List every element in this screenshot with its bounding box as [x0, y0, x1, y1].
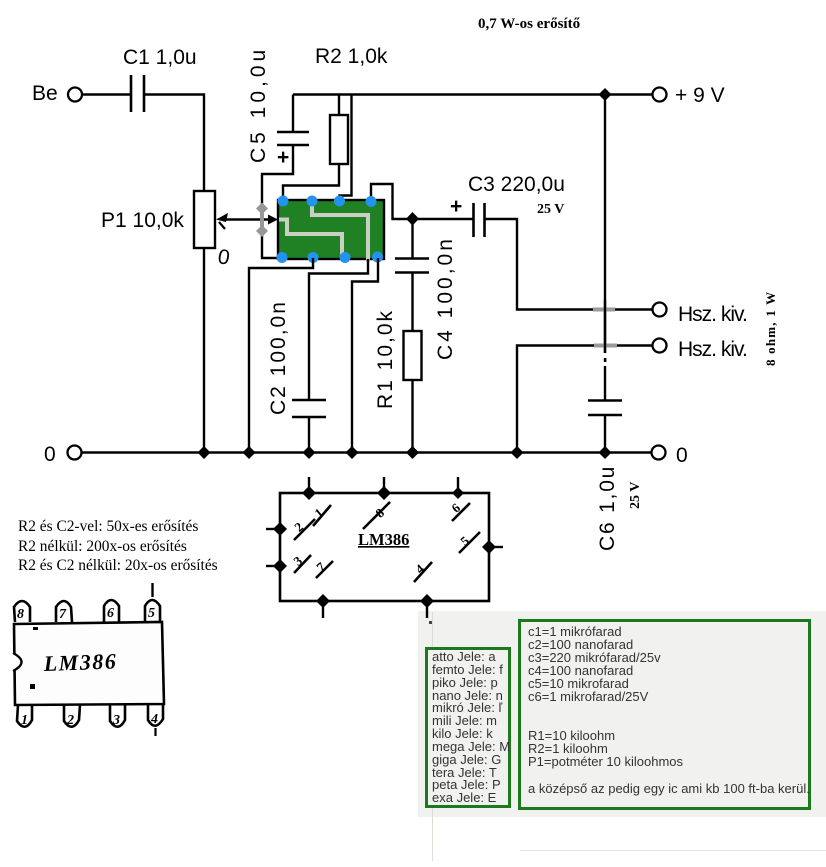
- svg-text:R1 10,0k: R1 10,0k: [374, 309, 397, 409]
- DIP-8 stray dash: [33, 627, 38, 630]
- svg-text:P1 10,0k: P1 10,0k: [101, 209, 184, 232]
- svg-text:3: 3: [112, 713, 120, 728]
- wire IC pin5 to output node: [371, 184, 413, 219]
- svg-text:0,7 W-os erősítő: 0,7 W-os erősítő: [478, 16, 581, 32]
- junction rail C2: [303, 446, 316, 459]
- svg-text:0: 0: [44, 443, 56, 466]
- capacitor C2: [267, 300, 326, 452]
- resistor R2: [315, 45, 388, 164]
- wire C4 to R1: [411, 273, 413, 332]
- pin stub top 1: [308, 477, 310, 493]
- svg-text:LM386: LM386: [358, 530, 409, 549]
- capacitor C4: [395, 236, 457, 360]
- DIP-8 top pin 6: [104, 600, 119, 622]
- svg-text:0: 0: [676, 444, 688, 467]
- svg-text:R2 nélkül: 200x-os erősítés: R2 nélkül: 200x-os erősítés: [18, 538, 187, 555]
- arrowhead at IC input pin 3: [268, 215, 278, 225]
- bottom-right gray panel: [418, 611, 826, 817]
- wire wiper to IC input: [222, 218, 272, 220]
- svg-text:Hsz. kiv.: Hsz. kiv.: [678, 303, 747, 326]
- wire IC pin4 to ground rail: [352, 258, 378, 453]
- capacitor C5: [247, 46, 309, 169]
- wire gap dot: [604, 358, 607, 362]
- svg-text:Hsz. kiv.: Hsz. kiv.: [678, 338, 747, 361]
- potentiometer P1: [101, 191, 232, 270]
- DIP-8 bottom pin 3: [110, 705, 125, 728]
- pin stub right: [489, 546, 503, 548]
- svg-text:C3 220,0u: C3 220,0u: [468, 173, 565, 196]
- faint divider horizontal: [520, 850, 826, 852]
- ground rail: [82, 451, 652, 453]
- gray selection handles on selected wire: [256, 203, 268, 238]
- pin number mark 5: [457, 532, 480, 553]
- pin number mark 8: [363, 502, 390, 529]
- crossing no-connect tick 2: [594, 344, 617, 348]
- wire Be to C1: [82, 93, 131, 95]
- wire C3 to speaker output: [485, 219, 653, 310]
- svg-text:R2 és C2-vel: 50x-es erősítés: R2 és C2-vel: 50x-es erősítés: [18, 518, 198, 535]
- pin number mark 2: [291, 519, 315, 540]
- svg-text:+ 9 V: + 9 V: [675, 84, 725, 107]
- wire R1 to ground rail: [411, 380, 413, 453]
- DIP-8 bottom pin 1: [17, 705, 32, 728]
- junction rail P1: [198, 446, 211, 459]
- junction rail pin4: [346, 446, 359, 459]
- faint divider vertical: [432, 612, 434, 861]
- capacitor C6: [588, 401, 643, 552]
- svg-text:+: +: [450, 195, 462, 218]
- wire node to C4: [411, 219, 413, 258]
- junction rail pin3: [243, 446, 256, 459]
- svg-text:R2 és C2 nélkül: 20x-os erősít: R2 és C2 nélkül: 20x-os erősítés: [18, 557, 218, 574]
- svg-text:R2 1,0k: R2 1,0k: [315, 45, 388, 68]
- pin junction left 1: [273, 522, 287, 536]
- wire IC pin7 to C2: [309, 259, 368, 400]
- DIP-8 package body: [14, 622, 164, 705]
- wire node to C3: [413, 218, 474, 220]
- pin stub top 3: [457, 477, 459, 493]
- svg-text:8 ohm, 1 W: 8 ohm, 1 W: [763, 291, 778, 366]
- svg-text:Be: Be: [32, 82, 58, 105]
- DIP-8 notch: [13, 653, 22, 671]
- DIP-8 top pin 5: [145, 583, 160, 622]
- wire speaker return to ground: [517, 346, 652, 453]
- svg-text:LM386: LM386: [42, 648, 117, 676]
- pin junction top 2: [377, 486, 391, 500]
- pin junction right: [482, 540, 496, 554]
- svg-text:C5 10,0u: C5 10,0u: [247, 46, 270, 163]
- prefix legend box: [425, 647, 511, 808]
- DIP-8 pin1 dot: [30, 684, 35, 689]
- input terminal Be: [68, 88, 82, 102]
- crossing no-connect tick 1: [593, 308, 615, 312]
- node output junction: [406, 212, 419, 226]
- wire C1 to P1 top: [144, 95, 204, 192]
- +9V terminal: [653, 88, 667, 102]
- svg-text:8: 8: [17, 607, 24, 622]
- svg-text:C2 100,0n: C2 100,0n: [267, 300, 290, 415]
- wire R2 bottom to IC pin1: [283, 164, 339, 201]
- svg-text:2: 2: [66, 713, 74, 728]
- DIP-8 top pin 7: [56, 601, 72, 622]
- pin stub left 1: [266, 528, 280, 530]
- svg-text:C4 100,0n: C4 100,0n: [434, 236, 457, 360]
- pin junction top 1: [302, 486, 316, 500]
- pin stub top 2: [383, 477, 385, 493]
- junction rail R1: [406, 446, 419, 459]
- pin stub bottom 2: [426, 601, 428, 618]
- junction +9V: [599, 88, 612, 101]
- pin number mark 7: [313, 559, 333, 578]
- pin junction top 3: [452, 487, 464, 499]
- wire to C6 top: [604, 366, 606, 400]
- pin number mark 4: [412, 561, 432, 582]
- LM386 symbol box: [280, 493, 489, 601]
- svg-text:25 V: 25 V: [537, 202, 564, 217]
- capacitor C3: [450, 173, 565, 237]
- svg-text:1: 1: [21, 713, 28, 728]
- pin number mark 6: [448, 500, 470, 521]
- pin junction bottom 2: [420, 594, 434, 608]
- pin number mark 3: [290, 553, 311, 573]
- pin stub bottom 1: [322, 601, 324, 618]
- component values box: [518, 619, 811, 810]
- wire P1 bottom to ground rail: [203, 248, 205, 453]
- IC pin handles (blue): [277, 196, 384, 264]
- wire C5 bottom to IC pin2: [262, 145, 293, 258]
- terminal Hsz. kiv. 1: [653, 303, 667, 317]
- +9V rail: [293, 93, 652, 95]
- junction rail C6: [599, 446, 612, 459]
- junction rail speaker: [511, 446, 524, 459]
- wire restore vertical over ticks: [604, 300, 606, 353]
- DIP-8 bottom pin 2: [64, 705, 80, 728]
- terminal Hsz. kiv. 2: [653, 339, 667, 353]
- svg-text:25 V: 25 V: [628, 482, 643, 509]
- wire +9V junction down to C6: [604, 95, 606, 354]
- svg-text:5: 5: [148, 606, 155, 621]
- wire IC pin3 to ground rail: [249, 258, 313, 453]
- pin stub left 2: [266, 565, 280, 567]
- capacitor C1: [123, 46, 197, 112]
- stray dot below pin: [429, 621, 432, 624]
- pin number mark 1: [311, 505, 331, 526]
- pin junction bottom 1: [316, 594, 330, 608]
- terminal 0 left: [68, 446, 82, 460]
- svg-text:C6 1,0u: C6 1,0u: [596, 465, 619, 551]
- DIP-8 top pin 8: [14, 601, 30, 622]
- svg-text:7: 7: [59, 607, 67, 622]
- svg-text:4: 4: [150, 712, 158, 727]
- pin junction left 2: [273, 559, 287, 573]
- svg-text:6: 6: [107, 606, 114, 621]
- terminal 0 right: [652, 446, 666, 460]
- svg-text:+: +: [277, 146, 289, 169]
- resistor R1: [374, 309, 422, 409]
- DIP-8 bottom pin 4: [148, 704, 163, 736]
- op-amp U1 LM386 (selected green symbol): [278, 200, 384, 262]
- svg-text:C1 1,0u: C1 1,0u: [123, 46, 197, 69]
- wire +9V rail to IC pin6: [340, 95, 352, 202]
